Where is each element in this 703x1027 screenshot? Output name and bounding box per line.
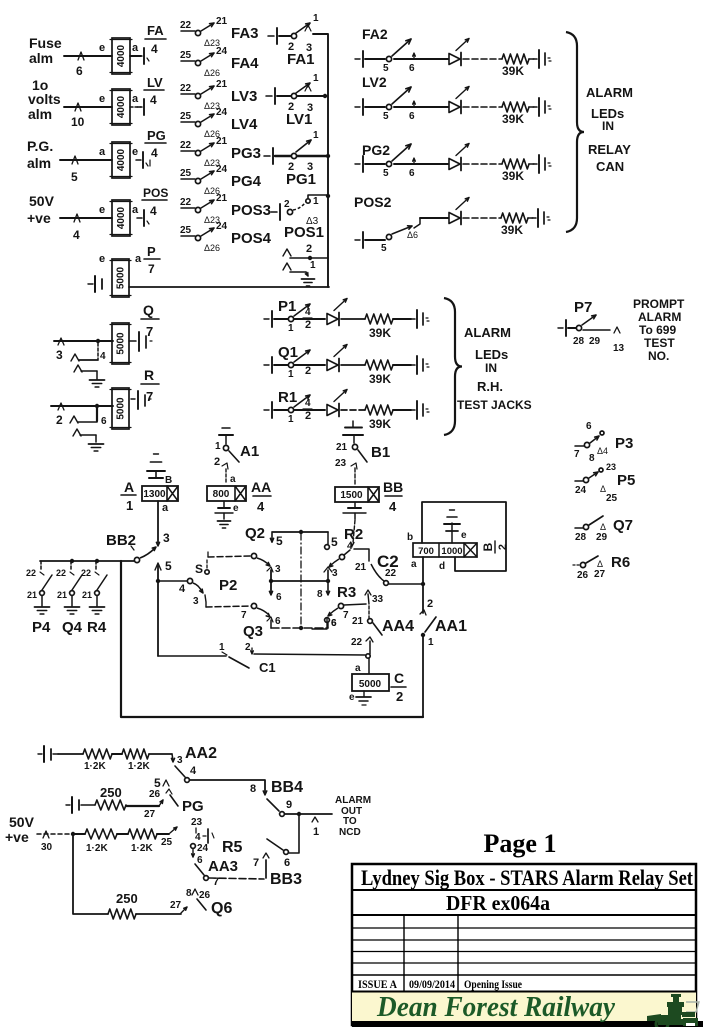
svg-text:TEST: TEST — [644, 336, 675, 350]
brace alarm leds in relay can — [566, 32, 584, 232]
label PG2 — [362, 142, 390, 158]
wire PG2 to LED — [394, 163, 448, 165]
svg-text:alm: alm — [29, 50, 53, 66]
svg-text:Q7: Q7 — [613, 517, 633, 534]
wire P1 to LED — [294, 318, 325, 320]
svg-text:AA2: AA2 — [185, 745, 217, 762]
svg-text:6: 6 — [409, 63, 415, 74]
test jack PG2 left — [355, 156, 363, 172]
net label 50V +ve — [5, 814, 35, 845]
svg-text:1·2K: 1·2K — [131, 843, 153, 854]
svg-text:26: 26 — [577, 570, 589, 581]
contact LV3 — [180, 79, 257, 111]
contact P5 — [575, 462, 618, 504]
label AA1 — [435, 618, 467, 635]
svg-text:25: 25 — [161, 837, 173, 848]
node on R wire — [95, 404, 99, 408]
wire AA3 to BB3 — [209, 878, 264, 879]
svg-text:22: 22 — [26, 568, 36, 578]
svg-text:BB: BB — [383, 479, 403, 495]
battery e below AA — [215, 501, 239, 519]
svg-text:9: 9 — [286, 799, 292, 811]
relay coil POS 4000 — [110, 200, 132, 236]
label AA2 — [185, 745, 217, 762]
contact BB2 — [134, 547, 156, 563]
svg-text:1: 1 — [126, 498, 133, 513]
svg-text:P2: P2 — [219, 577, 237, 594]
svg-text:NCD: NCD — [339, 827, 361, 838]
svg-text:BB4: BB4 — [271, 779, 303, 796]
svg-text:4: 4 — [305, 307, 311, 318]
svg-text:Dean Forest Railway: Dean Forest Railway — [376, 991, 615, 1023]
wire R1 resistor to jack — [393, 409, 411, 411]
svg-text:5000: 5000 — [116, 397, 127, 420]
label A/1 — [121, 479, 136, 513]
label LV1 — [286, 111, 312, 128]
terminal e — [132, 146, 138, 158]
svg-text:6: 6 — [197, 855, 203, 866]
wire FA2 LED to resistor — [463, 58, 502, 60]
ground — [90, 607, 105, 614]
contact B1 — [335, 436, 367, 486]
svg-text:PG4: PG4 — [231, 173, 262, 190]
svg-text:P5: P5 — [617, 472, 635, 489]
terminal e — [99, 42, 105, 54]
svg-text:e: e — [349, 692, 355, 703]
svg-text:A: A — [124, 479, 134, 495]
svg-text:Δ26: Δ26 — [204, 68, 220, 78]
label POS2 — [354, 194, 392, 210]
svg-text:LV4: LV4 — [231, 116, 258, 133]
svg-text:25: 25 — [180, 168, 192, 179]
label BB/4 — [383, 479, 403, 514]
wire R1 LED to resistor — [341, 409, 365, 411]
jack P1 right — [411, 310, 429, 328]
svg-text:4000: 4000 — [116, 95, 127, 118]
svg-text:ALARM: ALARM — [586, 85, 633, 100]
svg-text:2: 2 — [497, 544, 509, 550]
svg-text:4: 4 — [179, 583, 186, 595]
label C1 — [259, 660, 276, 675]
svg-text:Page 1: Page 1 — [484, 829, 557, 858]
label C/2 — [391, 670, 406, 704]
svg-text:a: a — [99, 146, 106, 158]
svg-text:22: 22 — [180, 197, 192, 208]
label P5 — [617, 472, 635, 489]
ground above B/2 — [444, 510, 460, 543]
svg-text:10: 10 — [71, 115, 85, 129]
label FA1 — [287, 51, 315, 68]
LED POS2 — [449, 198, 469, 225]
svg-text:5: 5 — [331, 535, 338, 549]
jack FA2 right — [529, 50, 551, 68]
label FA/4 — [145, 23, 166, 56]
resistor 39K Q1 — [365, 360, 393, 386]
node on Q wire — [96, 339, 100, 343]
label B/2 rotated — [481, 541, 509, 553]
wire LV coil to jack — [130, 106, 141, 108]
capacitor 700 1000 B/2 — [413, 543, 477, 557]
svg-text:1300: 1300 — [143, 489, 166, 500]
svg-text:29: 29 — [596, 532, 608, 543]
svg-text:22: 22 — [180, 20, 192, 31]
svg-text:POS1: POS1 — [284, 224, 324, 241]
jack PG2 right — [529, 155, 551, 173]
svg-text:5: 5 — [165, 559, 172, 573]
right pins 3 and 8 — [317, 567, 338, 600]
label PG — [182, 798, 204, 815]
svg-text:4: 4 — [195, 832, 201, 843]
relay coil R 5000 — [110, 388, 131, 429]
svg-text:39K: 39K — [502, 64, 524, 78]
svg-text:1·2K: 1·2K — [86, 843, 108, 854]
wire FA2 to LED — [394, 58, 448, 60]
svg-text:NO.: NO. — [648, 349, 669, 363]
contact to ground under R — [70, 408, 107, 442]
svg-text:5000: 5000 — [116, 266, 127, 289]
svg-text:Δ4: Δ4 — [597, 446, 608, 456]
wire LV2 to LED — [394, 106, 448, 108]
svg-text:24: 24 — [216, 164, 228, 175]
label LV2 — [362, 74, 387, 90]
svg-text:21: 21 — [336, 442, 348, 453]
wire Q1 resistor to jack — [393, 364, 411, 366]
contact R5 — [191, 817, 214, 866]
terminal b — [407, 532, 413, 543]
terminal e — [99, 253, 105, 265]
label A1 — [240, 443, 259, 460]
relay coil PG 4000 — [110, 142, 132, 178]
contact FA4 — [180, 46, 259, 78]
svg-text:2: 2 — [306, 243, 312, 255]
contact PG1 — [275, 130, 330, 173]
label P3 — [615, 435, 633, 452]
svg-text:PROMPT: PROMPT — [633, 297, 685, 311]
label R1 — [278, 389, 297, 406]
contact P7 — [568, 315, 625, 354]
svg-text:1·2K: 1·2K — [84, 761, 106, 772]
svg-text:7: 7 — [148, 262, 155, 276]
svg-text:Δ: Δ — [597, 559, 603, 569]
label POS/4 — [142, 186, 168, 218]
wire left rail down — [121, 561, 423, 717]
svg-text:5: 5 — [381, 243, 387, 254]
contact spare pin 2 — [283, 243, 328, 260]
svg-text:5000: 5000 — [116, 332, 127, 355]
svg-text:TO: TO — [343, 816, 357, 827]
wire Q1 LED to resistor — [341, 364, 365, 366]
svg-text:d: d — [439, 561, 445, 572]
wire PG2 LED to resistor — [463, 163, 502, 165]
contact Q2 — [251, 553, 281, 575]
svg-text:25: 25 — [180, 111, 192, 122]
svg-text:25: 25 — [180, 50, 192, 61]
svg-text:POS: POS — [143, 186, 168, 200]
test jack POS — [137, 210, 149, 226]
terminal e and ground below C — [349, 691, 371, 705]
svg-text:50V: 50V — [9, 814, 35, 830]
svg-text:24: 24 — [197, 843, 209, 854]
contact AA2 — [175, 765, 197, 782]
svg-text:09/09/2014: 09/09/2014 — [409, 977, 455, 991]
svg-text:4: 4 — [150, 204, 157, 218]
wire bus right column — [313, 34, 328, 287]
label PG1 — [286, 171, 316, 188]
battery A relay — [149, 471, 172, 486]
svg-text:PG1: PG1 — [286, 171, 316, 188]
net label Fuse alm — [29, 35, 62, 66]
terminal a — [162, 502, 169, 514]
contact LV4 — [180, 107, 258, 139]
contact LV1 — [277, 73, 327, 114]
label R3 — [337, 584, 356, 601]
wire Q2 pin3 down to crossbar — [269, 570, 282, 603]
test jack P1 left — [264, 311, 272, 327]
resistor 1.2K — [83, 749, 112, 772]
svg-text:S: S — [195, 562, 203, 576]
svg-text:3: 3 — [275, 564, 281, 575]
relay coil FA 4000 — [110, 38, 132, 74]
wire to resistors — [58, 753, 83, 755]
svg-text:6: 6 — [284, 857, 290, 869]
terminal a — [132, 93, 139, 105]
svg-text:13: 13 — [613, 343, 625, 354]
contact BB3 — [253, 839, 290, 878]
svg-text:To 699: To 699 — [639, 323, 676, 337]
svg-text:POS2: POS2 — [354, 194, 392, 210]
label POS1 — [284, 224, 324, 241]
svg-text:39K: 39K — [502, 169, 524, 183]
svg-text:R6: R6 — [611, 554, 630, 571]
svg-text:1: 1 — [428, 637, 434, 648]
label AA4 — [382, 618, 414, 635]
svg-text:POS3: POS3 — [231, 202, 271, 219]
svg-text:7: 7 — [343, 610, 349, 621]
svg-text:4: 4 — [150, 93, 157, 107]
svg-text:21: 21 — [216, 79, 228, 90]
label FA2 — [362, 26, 388, 42]
label R5 — [222, 839, 243, 856]
svg-text:FA: FA — [147, 23, 164, 38]
resistor 250 Q6 row — [108, 891, 138, 919]
svg-text:volts: volts — [28, 91, 61, 107]
contact POS2 — [355, 218, 420, 254]
ground below AA — [218, 521, 231, 528]
svg-text:a: a — [162, 502, 169, 514]
text ALARM LEDs IN RELAY CAN — [586, 85, 633, 174]
svg-text:250: 250 — [116, 891, 138, 906]
svg-text:4: 4 — [347, 541, 353, 552]
text PROMPT ALARM To 699 TEST NO. — [633, 297, 685, 363]
svg-text:23: 23 — [191, 817, 203, 828]
text Dean Forest Railway — [376, 991, 615, 1023]
svg-text:27: 27 — [170, 900, 182, 911]
wire down to C relay — [355, 658, 369, 674]
svg-text:1000: 1000 — [441, 546, 462, 557]
svg-text:e: e — [461, 530, 467, 541]
text ISSUE A — [358, 977, 397, 991]
svg-text:+ve: +ve — [5, 829, 29, 845]
terminal a — [135, 253, 142, 265]
svg-text:24: 24 — [216, 221, 228, 232]
ground — [90, 380, 105, 387]
text Lydney Sig Box - STARS Alarm Relay Set — [361, 865, 694, 890]
svg-text:1: 1 — [310, 260, 316, 271]
contact POS4 — [180, 221, 272, 253]
test jack PG1 — [264, 148, 273, 164]
wire to Q coil pin 3 — [54, 338, 113, 362]
pin 5 drop left — [270, 533, 283, 548]
svg-text:e: e — [99, 93, 105, 105]
svg-text:26: 26 — [149, 789, 161, 800]
relay coil Q 5000 — [110, 323, 131, 364]
test jack Q1 left — [264, 357, 272, 373]
wire POS2 to LED — [420, 217, 448, 219]
resistor 1.2K — [122, 749, 150, 772]
svg-text:2: 2 — [214, 456, 220, 468]
battery jack AA2 row — [38, 746, 58, 762]
contact LV2 — [365, 87, 415, 122]
svg-text:e: e — [99, 253, 105, 265]
wire 50V down to 250 row — [73, 836, 108, 914]
wire 10v-alm to LV coil — [64, 103, 112, 111]
svg-text:A1: A1 — [240, 443, 259, 460]
LED Q1 — [327, 345, 347, 372]
resistor 39K FA2 — [502, 54, 529, 78]
svg-text:IN: IN — [602, 119, 614, 133]
wire to R coil pin 2 — [51, 403, 113, 427]
relay coil LV 4000 — [110, 89, 132, 125]
svg-text:6: 6 — [586, 421, 592, 432]
pin 6 — [76, 64, 83, 78]
svg-text:P3: P3 — [615, 435, 633, 452]
svg-text:7: 7 — [253, 857, 259, 869]
contact Q1 — [274, 350, 311, 380]
LED FA2 — [449, 39, 469, 66]
svg-text:FA2: FA2 — [362, 26, 388, 42]
svg-text:4: 4 — [257, 499, 265, 514]
wire 250 to PG — [126, 800, 163, 820]
label AA3 — [208, 858, 238, 875]
svg-text:2: 2 — [305, 365, 311, 377]
svg-text:Δ6: Δ6 — [407, 230, 418, 240]
svg-text:39K: 39K — [369, 372, 391, 386]
ground — [89, 444, 104, 451]
terminal a — [411, 559, 417, 570]
svg-text:5: 5 — [276, 534, 283, 548]
wire C1 to AA4 node — [254, 654, 370, 658]
svg-text:DFR ex064a: DFR ex064a — [446, 891, 550, 915]
svg-text:P: P — [147, 244, 156, 259]
svg-text:5: 5 — [154, 776, 161, 790]
contact C2 — [371, 564, 397, 585]
contact PG2 — [365, 144, 415, 179]
wire 50v to POS coil — [60, 214, 112, 222]
svg-text:24: 24 — [575, 485, 587, 496]
svg-text:RELAY: RELAY — [588, 142, 631, 157]
contact Q3 — [251, 603, 281, 628]
svg-text:POS4: POS4 — [231, 230, 272, 247]
svg-text:25: 25 — [180, 225, 192, 236]
wire Q1 to LED — [294, 364, 325, 366]
svg-text:4000: 4000 — [116, 206, 127, 229]
test jack P7 — [558, 320, 566, 336]
svg-text:PG: PG — [182, 798, 204, 815]
svg-text:39K: 39K — [501, 223, 523, 237]
label PG/4 — [145, 128, 166, 166]
svg-text:AA: AA — [251, 479, 271, 495]
wire P coil to right bus — [129, 286, 329, 288]
svg-text:R.H.: R.H. — [477, 379, 503, 394]
svg-text:5: 5 — [383, 168, 389, 179]
test jack LV2 left — [355, 99, 363, 115]
svg-text:P1: P1 — [278, 298, 296, 315]
svg-text:P.G.: P.G. — [27, 138, 53, 154]
svg-text:R3: R3 — [337, 584, 356, 601]
terminal d — [439, 561, 445, 572]
right end lower — [325, 618, 337, 629]
svg-text:6: 6 — [276, 592, 282, 603]
label R4 — [87, 619, 107, 636]
svg-text:21: 21 — [216, 193, 228, 204]
svg-text:30: 30 — [41, 842, 53, 853]
contact to ground under Q — [71, 343, 106, 379]
svg-text:PG2: PG2 — [362, 142, 390, 158]
svg-text:6: 6 — [275, 616, 281, 627]
svg-text:C1: C1 — [259, 660, 276, 675]
contact BB4 — [267, 799, 292, 816]
label Q3 — [243, 623, 263, 640]
relay coil P 5000 — [110, 259, 131, 297]
svg-text:3: 3 — [163, 531, 170, 545]
svg-text:R: R — [144, 367, 154, 383]
svg-text:8: 8 — [186, 888, 192, 899]
pin 5 drop right — [325, 532, 338, 549]
test jack FA — [137, 48, 149, 64]
label BB3 — [270, 871, 302, 888]
jack POS2 right — [528, 209, 550, 227]
svg-text:7: 7 — [146, 389, 153, 404]
svg-text:21: 21 — [27, 590, 37, 600]
wire BB battery to R2 — [351, 520, 355, 546]
contact FA2 — [365, 39, 415, 74]
svg-text:1: 1 — [288, 323, 294, 334]
wire box around B/2 capacitors — [422, 502, 506, 571]
svg-text:21: 21 — [82, 590, 92, 600]
terminal a — [132, 204, 139, 216]
svg-text:21: 21 — [352, 616, 364, 627]
svg-text:3: 3 — [56, 348, 63, 362]
svg-text:alm: alm — [28, 106, 52, 122]
svg-text:2: 2 — [56, 413, 63, 427]
svg-text:Q1: Q1 — [278, 344, 298, 361]
svg-text:22: 22 — [180, 140, 192, 151]
svg-text:28: 28 — [575, 532, 587, 543]
contact R4 — [81, 561, 107, 606]
svg-text:3: 3 — [193, 596, 199, 607]
net label P.G. alm — [27, 138, 53, 171]
relay coil C 5000 — [352, 674, 389, 691]
svg-text:FA3: FA3 — [231, 25, 259, 42]
label P2 — [219, 577, 237, 594]
svg-text:4: 4 — [151, 146, 158, 160]
contact P2 — [156, 578, 206, 607]
svg-text:FA1: FA1 — [287, 51, 315, 68]
wire R2 to C2 — [354, 549, 369, 573]
wire BB4 to alarm out — [285, 812, 332, 838]
svg-text:BB3: BB3 — [270, 871, 302, 888]
contact POS1 — [284, 194, 330, 227]
